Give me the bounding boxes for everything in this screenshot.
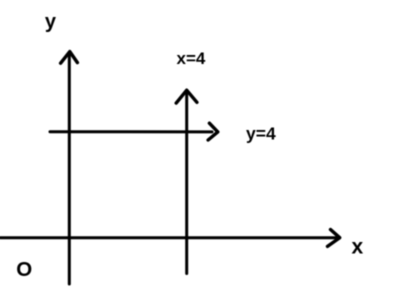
arrowhead of line x=4 [176, 90, 197, 103]
svg-text:y: y [45, 11, 57, 33]
svg-text:y=4: y=4 [246, 124, 276, 144]
y-axis line [68, 54, 71, 284]
svg-text:x=4: x=4 [177, 49, 206, 68]
x-axis arrowhead [328, 230, 340, 247]
y-axis arrowhead [61, 52, 78, 64]
line x=4 (vertical) [185, 93, 188, 274]
svg-text:O: O [16, 258, 32, 281]
svg-text:x: x [352, 236, 364, 259]
x-axis line [0, 236, 336, 239]
arrowhead of line y=4 [208, 123, 218, 140]
line y=4 (horizontal) [50, 130, 212, 133]
